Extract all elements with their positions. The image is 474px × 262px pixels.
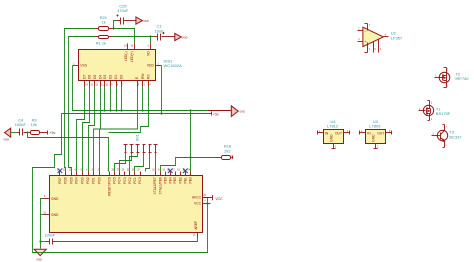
wire display D4 to PD1 [94, 87, 101, 172]
svg-text:GND: GND [36, 257, 42, 261]
VCC feed path left and bottom [33, 114, 208, 253]
voltage regulator U3 L7805 [360, 119, 392, 149]
svg-text:GND: GND [3, 138, 9, 142]
svg-text:PD0: PD0 [98, 177, 102, 184]
svg-text:XTAL1/PB6: XTAL1/PB6 [158, 177, 162, 194]
svg-text:+5v: +5v [213, 113, 219, 117]
svg-text:GND: GND [329, 134, 333, 142]
svg-text:L7805: L7805 [369, 124, 381, 129]
wire display D7 to PD4 [77, 87, 85, 172]
capacitor C (AREF 100nF) [45, 234, 56, 245]
display pin LED(-) 15 [124, 44, 128, 62]
resistor R1 [96, 36, 113, 46]
svg-text:470uF: 470uF [117, 8, 129, 13]
svg-text:PD3: PD3 [81, 177, 85, 184]
LCD display DIS1 body [79, 50, 183, 81]
svg-text:D0: D0 [120, 75, 124, 79]
svg-text:PB0: PB0 [189, 177, 193, 183]
svg-text:VDD: VDD [143, 19, 149, 23]
X mark unused pin PB4 [168, 169, 173, 174]
svg-text:VDD: VDD [182, 35, 188, 39]
svg-text:GND: GND [51, 197, 59, 201]
svg-text:GND: GND [239, 111, 245, 114]
MCU top pins PD7-PD0 [57, 170, 102, 184]
supply arrow GND (left) [3, 128, 17, 142]
wire SV1 pin1 to PC5 [115, 153, 126, 172]
svg-text:D6: D6 [88, 75, 92, 79]
wire cap to GND node [39, 240, 45, 242]
svg-text:2k2: 2k2 [224, 148, 230, 153]
svg-text:PD1: PD1 [92, 177, 96, 184]
svg-text:PB3: PB3 [173, 177, 177, 183]
svg-text:SV1: SV1 [136, 134, 140, 141]
wire R21 left to PD6 [65, 29, 96, 172]
svg-text:PC5: PC5 [113, 177, 117, 184]
svg-text:IRF740: IRF740 [455, 76, 469, 81]
svg-text:LF357: LF357 [391, 35, 403, 40]
wire R1 right to C1 and VO [113, 35, 154, 43]
wire SV1 pin4 to PC1 [135, 153, 144, 172]
MCU bottom pin AREF [193, 221, 198, 238]
svg-text:LED(+): LED(+) [130, 51, 134, 62]
display data pins D7-D0, E, RW, RS [83, 73, 152, 87]
svg-text:AREF: AREF [194, 221, 198, 230]
wire display D6 to PD3 [83, 87, 90, 172]
svg-text:1k: 1k [102, 20, 106, 25]
svg-text:D7: D7 [83, 75, 87, 79]
+5v rail [62, 112, 219, 117]
svg-text:PB4: PB4 [168, 177, 172, 183]
svg-text:100nF: 100nF [15, 122, 27, 127]
resistor R18 [217, 144, 233, 160]
svg-text:PC4: PC4 [118, 177, 122, 184]
svg-text:D3: D3 [103, 75, 107, 79]
svg-text:BC337: BC337 [449, 134, 462, 139]
svg-text:GND: GND [372, 134, 376, 142]
voltage regulator U4 L7812 [318, 119, 350, 149]
svg-text:L7812: L7812 [327, 124, 339, 129]
svg-text:IN: IN [325, 131, 329, 135]
svg-text:VO: VO [146, 51, 150, 56]
svg-text:WC1602A: WC1602A [164, 63, 183, 68]
svg-text:10uF: 10uF [155, 28, 164, 33]
capacitor C25 [117, 4, 129, 25]
svg-text:R1 1k: R1 1k [96, 41, 106, 46]
MCU top pins XTAL2/PB7 XTAL1/PB6 [152, 170, 162, 195]
supply symbol VCC [203, 195, 224, 201]
svg-text:RW: RW [141, 73, 145, 79]
svg-text:PD2: PD2 [86, 177, 90, 184]
svg-text:PD5: PD5 [70, 177, 74, 184]
wires D3-D0 and RW to GND rail [105, 87, 143, 111]
node reset junction [26, 131, 28, 133]
svg-text:BS170F: BS170F [436, 111, 451, 116]
svg-text:D1: D1 [114, 75, 118, 79]
GND rail branch to XTAL1/PB6, PB0 and R18 [161, 156, 217, 171]
wire SV1 pin6 to XTAL2/PB7 [155, 153, 157, 172]
svg-text:VCC: VCC [215, 197, 223, 201]
supply arrow VDD (second) [165, 33, 188, 40]
wire display VDD pin down to +5v rail [160, 66, 162, 115]
svg-text:PD7: PD7 [58, 177, 62, 184]
svg-text:IN: IN [367, 131, 371, 135]
supply arrow VDD (top) [128, 17, 149, 24]
MCU left pins GND GND [44, 196, 60, 217]
capacitor C4 [15, 117, 28, 135]
wire display D5 to PD2 [89, 87, 95, 172]
wire VSS down to GND rail [73, 66, 232, 158]
svg-text:VSS: VSS [80, 64, 87, 68]
X mark unused pin PD7 [58, 169, 63, 174]
transistor T2 IRF740 [435, 68, 470, 88]
svg-text:LED(-): LED(-) [124, 51, 128, 61]
svg-text:PD4: PD4 [75, 177, 79, 184]
supply arrow GND (right end of rail) [231, 106, 245, 117]
display pin VO 3 [146, 44, 150, 57]
wire display RS to RESET vertical [109, 87, 149, 133]
svg-text:+5v: +5v [49, 131, 55, 135]
op-amp U2 [358, 24, 403, 53]
transistor T1 BS170F [419, 101, 451, 121]
svg-text:PB2: PB2 [178, 177, 182, 183]
transistor T3 BC337 [432, 125, 463, 148]
svg-text:VCC: VCC [194, 202, 202, 206]
svg-text:10k: 10k [31, 122, 37, 127]
wire R1 left to PD5 [69, 37, 96, 172]
display pin LED(+) 16 [130, 44, 134, 62]
svg-text:PC1: PC1 [133, 177, 137, 184]
supply symbol GND (bottom) [34, 249, 48, 261]
MCU top pins PB5-PB0 [162, 170, 192, 184]
wire MCU GND pins chain to GND [41, 199, 44, 249]
svg-text:+: + [365, 40, 367, 44]
display pin VDD (2) [147, 63, 162, 67]
wire SV1 pin5 [146, 153, 150, 172]
svg-text:PD6: PD6 [64, 177, 68, 184]
svg-text:D5: D5 [93, 75, 97, 79]
svg-text:OUT: OUT [335, 131, 342, 135]
wire reset node to RESET pin [28, 133, 109, 172]
svg-text:XTAL2/PB7: XTAL2/PB7 [153, 177, 157, 194]
svg-text:–: – [365, 29, 367, 33]
MCU pin RESET/PC6 [107, 170, 111, 196]
X mark unused pin PB1 [183, 169, 188, 174]
wire display E to PD0 [100, 87, 138, 172]
wire AREF to C bottom [53, 238, 198, 242]
resistor R3 [28, 117, 56, 135]
svg-text:D2: D2 [109, 75, 113, 79]
svg-text:RESET/PC6: RESET/PC6 [107, 177, 111, 196]
svg-text:RS: RS [147, 74, 151, 79]
svg-text:PB5: PB5 [163, 177, 167, 183]
svg-text:GND: GND [51, 213, 59, 217]
svg-text:PC0: PC0 [138, 177, 142, 184]
svg-text:100nF: 100nF [45, 234, 56, 238]
resistor R21 [96, 15, 114, 30]
svg-text:AVCC: AVCC [192, 196, 202, 200]
wire R21 node to LED(+) [114, 29, 135, 44]
svg-text:OUT: OUT [377, 131, 384, 135]
svg-text:PC2: PC2 [128, 177, 132, 184]
GND rail junction dots D3 D2 D1 D0 RW [103, 109, 143, 111]
MCU right pins AVCC VCC [192, 195, 211, 205]
wire R21 right junction to C25 [112, 21, 116, 30]
capacitor C1 [154, 24, 165, 41]
svg-text:PC3: PC3 [123, 177, 127, 184]
display pin VSS (1) [73, 63, 88, 67]
pin header SV1 [124, 134, 158, 152]
svg-text:PB1: PB1 [183, 177, 187, 183]
MCU top pins PC5-PC0 [112, 170, 143, 184]
microcontroller IC1 body [50, 176, 203, 233]
svg-text:D4: D4 [99, 75, 103, 79]
wire SV1 pin2 to PC4 [120, 153, 132, 172]
wire SV1 pin3 to PC2 [130, 153, 138, 172]
svg-text:VDD: VDD [147, 64, 155, 68]
